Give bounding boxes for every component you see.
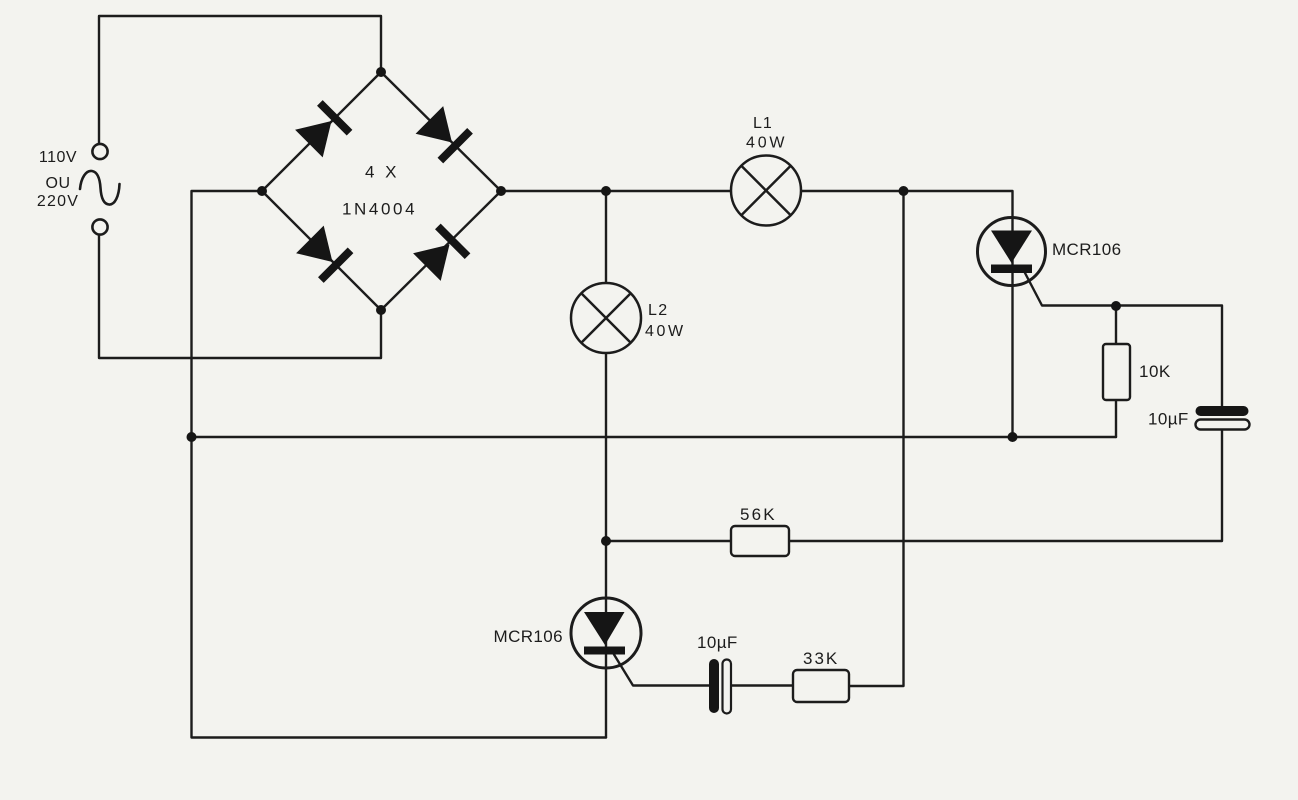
node bridge left vertex — [257, 186, 267, 196]
node bridge bottom vertex — [376, 305, 386, 315]
wire rail right-vertex to lamp L1 — [501, 190, 731, 192]
wire left rail and bottom run — [192, 191, 607, 738]
capacitor C2 10uF plate right — [723, 660, 732, 714]
AC source sine symbol — [80, 171, 120, 205]
resistor R1 10K — [1103, 344, 1130, 400]
svg-text:MCR106: MCR106 — [494, 627, 563, 646]
node bridge right vertex — [496, 186, 506, 196]
resistor R2 56K — [731, 526, 789, 556]
node bridge top vertex — [376, 67, 386, 77]
wire SCR1 gate to right vertical — [1025, 272, 1223, 406]
node L2 56K junction — [601, 536, 611, 546]
svg-text:10K: 10K — [1139, 362, 1171, 381]
wire capacitor C1 bottom to 56K run — [606, 430, 1222, 542]
svg-text:33K: 33K — [803, 649, 839, 668]
svg-text:40W: 40W — [645, 323, 686, 340]
resistor R3 33K — [793, 670, 849, 702]
wire right mid vertical to 33K — [849, 191, 904, 686]
svg-text:L1: L1 — [753, 115, 773, 132]
SCR Q1 MCR106 — [978, 218, 1046, 286]
svg-text:10µF: 10µF — [1148, 410, 1189, 429]
svg-text:220V: 220V — [37, 193, 79, 210]
diode D4 lower-right 1N4004 — [413, 224, 470, 281]
svg-text:4 X: 4 X — [365, 163, 400, 182]
wire lamp L2 bottom through SCR2 to bottom run — [605, 353, 607, 738]
wire SCR1 vertical through symbol to cathode junction — [1011, 217, 1013, 437]
capacitor C1 10uF plate bottom — [1196, 420, 1250, 430]
node mid-left junction — [187, 432, 197, 442]
SCR Q2 MCR106 — [571, 598, 641, 668]
capacitor C2 10uF plate left — [709, 659, 719, 713]
capacitor C1 10uF plate top — [1196, 406, 1249, 416]
wire 10K top lead — [1115, 306, 1117, 344]
wire middle horizontal run — [192, 436, 1117, 438]
svg-text:1N4004: 1N4004 — [342, 200, 417, 219]
diode D1 upper-left 1N4004 — [295, 100, 352, 157]
node SCR1 cathode junction — [1008, 432, 1018, 442]
node rail right junction — [899, 186, 909, 196]
svg-text:MCR106: MCR106 — [1052, 240, 1121, 259]
lamp L2 — [571, 283, 641, 353]
wire top loop from AC top terminal to bridge top vertex — [99, 16, 381, 144]
svg-text:L2: L2 — [648, 302, 669, 319]
wire bridge diamond — [262, 72, 501, 310]
lamp L1 — [731, 156, 801, 226]
svg-text:56K: 56K — [740, 505, 777, 524]
AC source terminal top — [92, 144, 107, 159]
node rail-L2 junction — [601, 186, 611, 196]
node gate1 10K junction — [1111, 301, 1121, 311]
wire rail lamp L1 to SCR1 anode — [801, 191, 1013, 217]
svg-text:10µF: 10µF — [697, 633, 738, 652]
AC source terminal bottom — [92, 219, 107, 234]
wire SCR2 gate to capacitor C2 — [614, 655, 709, 686]
svg-text:OU: OU — [46, 175, 71, 192]
wire bottom-left loop from AC bottom terminal to bridge bottom vertex — [99, 235, 381, 359]
diode D3 lower-left 1N4004 — [296, 226, 353, 283]
diode D2 upper-right 1N4004 — [416, 106, 473, 163]
wire 10K bottom lead — [1115, 400, 1117, 437]
wire junction to lamp L2 top — [605, 191, 607, 283]
svg-text:40W: 40W — [746, 135, 787, 152]
svg-text:110V: 110V — [39, 149, 77, 166]
wire capacitor C2 to 33K — [731, 684, 793, 686]
